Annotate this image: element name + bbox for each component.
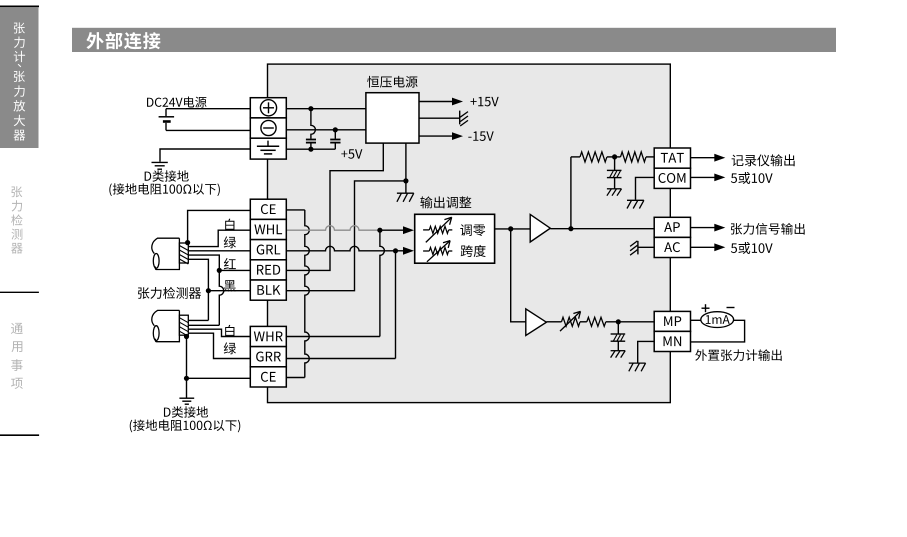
- wire RED lead: [188, 255, 219, 262]
- terminal MN: [654, 331, 690, 351]
- ground D-class earth (bottom): [179, 397, 194, 399]
- detector 1 connector: [179, 243, 188, 263]
- wire A1 output up to TAT network: [570, 157, 572, 229]
- terminal BLK: [250, 280, 286, 300]
- terminal WHR: [250, 326, 286, 346]
- terminal GRR: [250, 347, 286, 367]
- page header bar: [72, 28, 836, 52]
- label output adjust: [420, 196, 471, 208]
- wire det2 black lead: [188, 319, 208, 321]
- chassis ground (power mid): [459, 111, 461, 125]
- node RED junction: [217, 268, 222, 273]
- terminal AP: [654, 217, 690, 237]
- page sidebar top rule: [0, 5, 39, 7]
- arrow recorder output: [691, 157, 715, 159]
- wire RV3 to R3: [580, 321, 587, 323]
- arrow into zero adjust: [403, 226, 414, 234]
- label span adjust: [461, 245, 486, 257]
- label constant voltage supply: [367, 76, 417, 88]
- wire MN to chassis: [638, 341, 655, 362]
- page sidebar label 3: [11, 323, 23, 334]
- wire R2 to TAT: [646, 156, 654, 158]
- node R1-R2 junction: [612, 154, 617, 159]
- meter M1 1mA: [701, 312, 734, 328]
- label zero adjust: [460, 224, 485, 236]
- resistor R1: [580, 152, 607, 162]
- terminal WHL: [250, 219, 286, 239]
- resistor R3: [587, 317, 606, 326]
- wire stub to chassis: [405, 181, 407, 193]
- wire GRR signal: [286, 358, 395, 360]
- wire battery minus to terminal: [166, 129, 250, 131]
- arrow COM output: [691, 176, 715, 178]
- amplifier unit box: [268, 64, 671, 403]
- wire CE2 lead: [187, 377, 251, 379]
- wire +15V output: [419, 101, 452, 103]
- tension detector 1 roller: [152, 238, 180, 253]
- wire to resistor R1: [571, 156, 580, 158]
- wire GRR vertical join: [395, 251, 397, 359]
- capacitor C3 (feedthrough to chassis): [614, 157, 616, 170]
- wire RED shared vertical: [219, 262, 224, 325]
- label +5V: [341, 149, 362, 159]
- terminal AC: [654, 237, 690, 257]
- label 5 or 10V (bottom): [731, 242, 773, 254]
- node 0V junction: [333, 127, 338, 132]
- wire R1 to R2: [607, 156, 621, 158]
- label green 1: [224, 236, 236, 248]
- label -15V: [468, 131, 493, 141]
- label meter plus: [702, 307, 710, 309]
- wire GRL green lead: [188, 250, 250, 252]
- label 5 or 10V (top): [731, 172, 773, 184]
- terminal RED: [250, 260, 286, 280]
- wire to op-amp A2 input: [511, 229, 526, 322]
- wire BLK to terminal: [208, 290, 250, 292]
- node A1 output junction: [568, 226, 573, 231]
- label green 2: [224, 342, 236, 354]
- node detector1 shield junction: [185, 240, 190, 245]
- wire meter return to MN: [691, 320, 745, 342]
- wire GRR green lead: [188, 333, 250, 358]
- potentiometer RV3: [562, 317, 581, 326]
- wire -15V output: [419, 135, 452, 137]
- wire signal ground rail to BLK: [286, 143, 406, 291]
- wire det2 red lead: [188, 324, 219, 326]
- node op-amp input junction: [508, 226, 513, 231]
- chassis ground (under C3): [607, 188, 622, 190]
- label external tension meter output: [695, 349, 781, 361]
- wire R3 to MP: [606, 321, 654, 323]
- node signal ground junction: [403, 178, 408, 183]
- wire WHL signal (gray): [286, 226, 380, 231]
- power terminal block plus: [250, 98, 286, 118]
- wire GRL signal: [286, 246, 395, 251]
- wire GRL junction to span adjust: [396, 250, 404, 252]
- potentiometer RV1 (zero): [423, 229, 429, 231]
- node +24V junction: [308, 106, 313, 111]
- label D-class ground (top): [145, 170, 189, 181]
- arrow -15V: [452, 132, 463, 140]
- wire CE1 to detector shield: [188, 210, 251, 242]
- output adjust box U2: [415, 214, 495, 263]
- node meter line junction: [616, 319, 621, 324]
- label white 1: [225, 219, 234, 231]
- detector 2 connector: [179, 315, 188, 335]
- wire det2 shield to earth: [186, 337, 188, 398]
- arrow +15V: [452, 98, 463, 106]
- arrow AC output: [691, 246, 715, 248]
- wire WHR signal: [286, 336, 380, 338]
- terminal CE2: [250, 367, 286, 387]
- wire WHL white lead: [188, 230, 250, 246]
- node BLK junction: [206, 288, 211, 293]
- label white 2: [225, 325, 234, 337]
- wire COM to chassis: [636, 177, 655, 199]
- node WHL-WHR junction: [377, 228, 382, 233]
- tension detector 2 roller: [152, 310, 180, 325]
- op-amp A1: [530, 214, 550, 242]
- wire A2 to potentiometer: [546, 321, 561, 323]
- wire MP to meter: [691, 319, 701, 321]
- wire WHL junction to zero adjust: [380, 229, 404, 231]
- battery BT1: [165, 109, 167, 116]
- label black: [224, 280, 236, 292]
- potentiometer RV2 (span): [423, 250, 429, 252]
- page sidebar label 2: [11, 186, 22, 197]
- node C1 to ground junction: [308, 147, 313, 152]
- wire CE1-CE2 shield bus: [286, 209, 305, 211]
- terminal CE1: [250, 199, 286, 219]
- arrow into span adjust: [403, 247, 414, 255]
- page sidebar rule 2: [0, 291, 39, 293]
- capacitor C4 (feedthrough to chassis): [617, 322, 619, 334]
- power terminal block minus: [250, 118, 286, 138]
- wire CE internal ground: [286, 148, 335, 150]
- wire 0V rail: [286, 129, 366, 131]
- capacitor C2: [334, 130, 336, 139]
- wire analog ground output: [419, 117, 460, 119]
- node CE2 earth junction: [184, 376, 189, 381]
- wire +24V rail: [286, 108, 366, 110]
- capacitor C1: [311, 109, 316, 139]
- label red: [224, 258, 236, 269]
- label DC24V power: [147, 96, 206, 107]
- label tension signal output: [731, 223, 805, 235]
- chassis ground (AC): [637, 241, 639, 255]
- resistor R2: [621, 152, 647, 162]
- page sidebar tab text: [14, 22, 25, 33]
- wire adjust to op-amp A1: [495, 228, 531, 230]
- wire +5V rail to RED: [286, 143, 383, 270]
- label recorder output: [732, 154, 795, 166]
- terminal MP: [654, 311, 690, 331]
- terminal GRL: [250, 240, 286, 260]
- arrow tension signal output: [691, 227, 715, 229]
- label +15V: [470, 97, 498, 107]
- op-amp A2: [526, 309, 547, 336]
- wire WHR white lead: [188, 329, 250, 336]
- wire ground terminal to earth: [160, 149, 250, 162]
- terminal COM: [654, 168, 690, 188]
- wire WHR vertical join: [380, 230, 385, 336]
- ground D-class earth (top): [152, 161, 168, 163]
- page sidebar rule 3: [0, 434, 39, 436]
- label ground resistance (top): [109, 183, 220, 196]
- label ground resistance (bottom): [130, 419, 241, 432]
- power supply U1: [366, 93, 419, 143]
- wire RED to terminal: [219, 269, 250, 271]
- terminal TAT: [654, 148, 690, 168]
- page header title: [86, 32, 160, 49]
- page sidebar tab: [0, 7, 39, 148]
- chassis ground (COM): [627, 199, 644, 201]
- label meter minus: [727, 307, 735, 309]
- wire battery plus to terminal: [166, 108, 250, 110]
- chassis ground (under supply): [397, 192, 414, 194]
- label D-class ground (bottom): [164, 406, 208, 417]
- chassis ground (MN): [629, 362, 646, 364]
- wire A1 output to AP: [550, 228, 654, 230]
- wire AC to chassis: [638, 246, 654, 248]
- node GRL-GRR junction: [393, 248, 398, 253]
- chassis ground (under C4): [611, 350, 626, 352]
- label tension detector: [138, 287, 201, 299]
- wire BLK lead: [188, 259, 208, 320]
- node det2 shield junction: [184, 334, 189, 339]
- power terminal block ground: [250, 138, 286, 159]
